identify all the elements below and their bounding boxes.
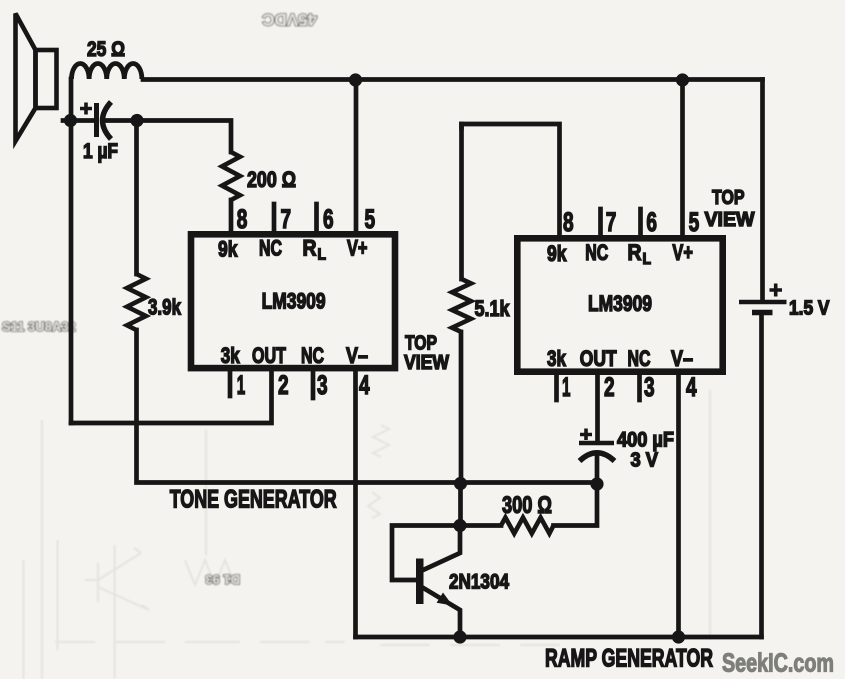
wire top rail xyxy=(143,77,763,82)
note TOP VIEW IC1 xyxy=(404,333,449,375)
wire 300ohm left xyxy=(461,523,502,528)
node top rail pin5 IC2 xyxy=(676,73,689,86)
svg-text:3k: 3k xyxy=(221,343,241,368)
IC U2 LM3909 box xyxy=(517,238,722,371)
svg-text:400 µF: 400 µF xyxy=(617,429,674,452)
IC1 pin labels xyxy=(218,236,368,369)
svg-text:200 Ω: 200 Ω xyxy=(247,167,296,192)
svg-text:SeekIC.com: SeekIC.com xyxy=(722,648,834,678)
pin stub IC1 pin7 xyxy=(272,204,277,231)
node 400uF bottom xyxy=(590,477,603,490)
svg-text:V+: V+ xyxy=(347,236,368,261)
wire 3.9k top stub xyxy=(134,121,139,275)
wire IC1 pin5 up xyxy=(354,80,359,232)
svg-text:7: 7 xyxy=(281,204,292,234)
svg-text:9k: 9k xyxy=(547,241,567,266)
svg-text:4: 4 xyxy=(359,370,370,400)
pin stub IC2 pin3 xyxy=(637,375,642,400)
svg-text:L: L xyxy=(318,247,327,264)
wire 5.1k bottom stub xyxy=(459,332,464,483)
svg-text:TOP: TOP xyxy=(712,187,745,209)
svg-text:2: 2 xyxy=(278,370,289,400)
node collector xyxy=(453,519,466,532)
wire 200ohm to pin8 IC1 xyxy=(229,200,234,231)
svg-text:OUT: OUT xyxy=(580,346,617,371)
svg-text:25 Ω: 25 Ω xyxy=(87,38,125,61)
wire IC2 pin2 down to cap xyxy=(595,375,600,442)
transistor Q1 2N1304 base bar xyxy=(416,559,424,605)
svg-text:V–: V– xyxy=(671,346,693,371)
svg-text:2: 2 xyxy=(604,372,615,402)
svg-text:NC: NC xyxy=(301,343,324,368)
svg-text:R: R xyxy=(628,240,642,265)
node cap left xyxy=(64,114,77,127)
pin stub IC1 pin3 xyxy=(311,371,316,398)
transistor Q1 emitter arrow xyxy=(437,593,453,606)
pin stub IC2 pin7 xyxy=(598,209,603,235)
resistor R4 300 ohm xyxy=(501,518,554,534)
svg-text:300 Ω: 300 Ω xyxy=(502,492,552,519)
svg-text:OUT: OUT xyxy=(252,343,286,368)
svg-text:D1 93: D1 93 xyxy=(205,572,240,587)
wire battery bottom vertical xyxy=(759,313,764,637)
svg-text:7: 7 xyxy=(606,207,617,237)
wire cap left stub xyxy=(63,118,93,123)
svg-text:3 V: 3 V xyxy=(631,450,659,472)
capacitor C1 1uF plates xyxy=(80,102,111,139)
svg-text:NC: NC xyxy=(259,236,282,261)
svg-text:V–: V– xyxy=(346,343,368,368)
wire collector xyxy=(422,526,460,571)
svg-text:3: 3 xyxy=(644,372,655,402)
svg-text:3.9k: 3.9k xyxy=(148,295,182,320)
svg-text:4: 4 xyxy=(686,372,697,402)
pin stub IC2 pin1 xyxy=(554,375,559,400)
svg-text:3k: 3k xyxy=(547,346,567,371)
IC1 pin numbers xyxy=(237,204,375,400)
svg-text:8: 8 xyxy=(563,207,574,237)
wire 400uF cap to node xyxy=(595,453,600,484)
svg-text:LM3909: LM3909 xyxy=(588,291,652,316)
inductor L1 25 ohm coil xyxy=(72,63,142,79)
svg-text:3: 3 xyxy=(317,370,328,400)
svg-text:LM3909: LM3909 xyxy=(262,289,326,314)
svg-text:V+: V+ xyxy=(672,240,693,265)
resistor R2 3.9k xyxy=(127,274,146,330)
pin stub IC1 pin6 xyxy=(314,204,319,231)
svg-text:NC: NC xyxy=(628,346,651,371)
capacitor C2 400uF plates xyxy=(579,429,615,462)
svg-text:5: 5 xyxy=(689,207,700,237)
node emitter bottom rail xyxy=(453,630,466,643)
svg-text:VIEW: VIEW xyxy=(404,352,449,374)
IC U1 LM3909 box xyxy=(191,234,395,368)
wire U-link 5.1k to pin8 IC2 xyxy=(462,124,560,235)
svg-text:L: L xyxy=(643,251,652,268)
wire bottom rail xyxy=(356,635,762,640)
svg-text:S11 3U8A32: S11 3U8A32 xyxy=(2,319,76,334)
IC2 pin labels xyxy=(547,240,693,371)
svg-text:9k: 9k xyxy=(218,237,238,262)
resistor R3 5.1k xyxy=(452,279,471,332)
ghost bleed-through layer (decorative) xyxy=(24,390,711,679)
wire speaker left vertical xyxy=(69,79,74,423)
wire emitter xyxy=(423,588,461,638)
wire IC2 pin5 up xyxy=(680,80,685,236)
node cap right xyxy=(130,114,143,127)
speaker LS1 xyxy=(16,14,57,142)
svg-text:1: 1 xyxy=(237,370,246,400)
node IC2 pin4 bottom rail xyxy=(672,630,685,643)
wire IC2 pin4 down xyxy=(676,375,681,637)
svg-text:6: 6 xyxy=(646,207,657,237)
battery B1 plates xyxy=(739,284,787,313)
wire battery top vertical xyxy=(760,80,765,302)
svg-text:NC: NC xyxy=(585,240,608,265)
pin stub IC1 pin1 xyxy=(228,371,233,396)
svg-text:5.1k: 5.1k xyxy=(475,296,511,321)
svg-text:TONE GENERATOR: TONE GENERATOR xyxy=(170,486,337,514)
pin stub IC2 pin6 xyxy=(638,209,643,235)
wire speaker return bottom xyxy=(71,371,272,423)
svg-text:8: 8 xyxy=(237,204,248,234)
svg-text:1 µF: 1 µF xyxy=(83,140,118,163)
wire collector node link xyxy=(458,483,463,526)
svg-text:6: 6 xyxy=(323,204,334,234)
svg-text:1.5 V: 1.5 V xyxy=(789,298,830,320)
node 5.1k bottom xyxy=(454,477,467,490)
wire 300ohm right up to cap node xyxy=(554,484,598,526)
wire IC1 pin4 down xyxy=(353,371,358,637)
svg-text:5: 5 xyxy=(365,204,376,234)
wire 5.1k top stub xyxy=(459,124,464,279)
wire 3.9k bottom to tone rail xyxy=(137,330,598,483)
svg-text:R: R xyxy=(303,236,317,261)
svg-text:VIEW: VIEW xyxy=(705,209,755,231)
IC2 pin numbers xyxy=(562,207,699,402)
note TOP VIEW IC2 xyxy=(705,187,755,231)
wire cap right to 200ohm xyxy=(107,121,231,153)
wire base feedback loop xyxy=(392,526,460,581)
resistor R1 200 ohm xyxy=(222,152,240,200)
svg-text:1: 1 xyxy=(562,372,571,402)
svg-text:2N1304: 2N1304 xyxy=(449,570,509,594)
svg-text:RAMP GENERATOR: RAMP GENERATOR xyxy=(545,645,713,673)
svg-text:45VDC: 45VDC xyxy=(262,10,317,29)
node top rail pin5 IC1 xyxy=(349,73,362,86)
